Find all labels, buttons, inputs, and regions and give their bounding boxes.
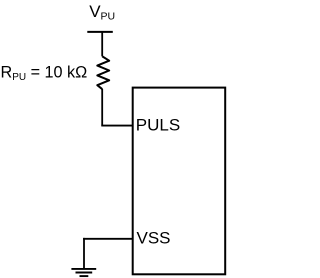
svg-text:VSS: VSS	[137, 228, 171, 247]
ground symbol	[71, 269, 96, 276]
power rail VPU bar	[87, 31, 113, 33]
resistor RPU	[97, 56, 109, 89]
wire from VPU bar to resistor	[101, 32, 103, 57]
svg-text:VPU: VPU	[89, 2, 115, 22]
wire corner to PULS pin	[101, 125, 132, 127]
svg-text:PULS: PULS	[136, 116, 180, 135]
svg-text:RPU = 10 kΩ: RPU = 10 kΩ	[1, 64, 88, 83]
wire VSS pin to ground corner	[83, 238, 133, 240]
wire from resistor to PULS corner	[101, 89, 103, 126]
IC box U1	[133, 88, 226, 275]
wire down to ground	[83, 238, 85, 269]
